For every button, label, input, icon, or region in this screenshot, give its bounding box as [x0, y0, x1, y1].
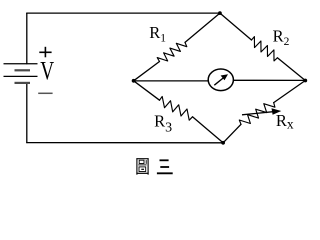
- svg-text:V: V: [40, 57, 54, 86]
